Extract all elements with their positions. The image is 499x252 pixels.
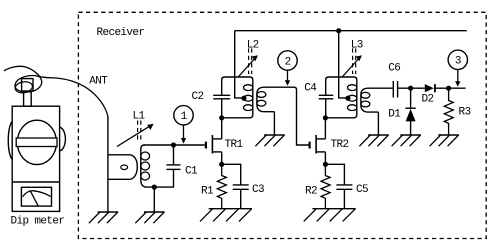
inductor L2 (primary loops) [244,85,253,111]
svg-text:C5: C5 [356,184,368,196]
svg-text:TR2: TR2 [331,139,349,151]
svg-text:R2: R2 [305,186,317,198]
wire: rail to L3 tap [339,31,348,98]
capacitor C3 [222,164,249,208]
svg-text:ANT: ANT [89,75,108,87]
svg-text:TR1: TR1 [225,139,244,151]
svg-text:C4: C4 [304,83,317,95]
tank circuit L3/C4 outline [326,77,357,118]
ground (R3) [430,135,459,146]
svg-text:C2: C2 [192,91,204,103]
junction: ground tap [152,185,157,190]
inductor L3 (primary loops) [348,85,357,111]
wire: C6 to D2 [398,87,425,89]
resistor R3 [444,88,453,135]
svg-text:D2: D2 [422,93,434,105]
tank circuit L2/C2 outline [222,77,253,118]
junction: D2 / R3 node [446,86,451,91]
node 1 [174,106,193,144]
receiver enclosure (dashed box) [78,12,486,238]
variable-core arrow L3 [343,48,362,76]
wire: L3 secondary top to C6 [368,87,393,89]
resistor R1 [217,164,226,208]
wire: L2 secondary top to TR2 gate [264,87,309,145]
wire to ground [153,187,155,212]
node 3 [448,50,467,87]
svg-text:Dip meter: Dip meter [11,215,65,227]
wire: L2 secondary bottom to ground [273,112,275,135]
wire: L3 secondary bottom to ground [377,112,379,135]
junction: TR1 drain / tank bottom [219,115,224,120]
node 2 [278,51,297,86]
wire: L1 secondary bottom / C1 bottom [146,186,174,188]
junction: L3 tap [345,96,350,101]
svg-text:C6: C6 [388,63,400,75]
svg-text:C3: C3 [252,184,264,196]
wire: L1 secondary to TR1 gate [144,144,205,146]
supply rail [235,30,467,32]
svg-text:R1: R1 [201,186,214,198]
svg-text:Receiver: Receiver [97,27,145,39]
junction: C6 / D1 / D2 node [408,86,413,91]
svg-text:L1: L1 [133,110,146,122]
junction: C1 tap [171,142,176,147]
svg-text:2: 2 [285,56,291,68]
wire: dip-meter probe loop to antenna input [4,66,108,117]
resistor R2 [321,164,330,208]
capacitor C4 [319,95,334,99]
transformer L1 primary [108,155,137,180]
diode D1 [405,88,415,135]
junction: L2 tap [241,96,246,101]
svg-text:1: 1 [181,111,188,123]
ground (L1 secondary) [135,212,164,223]
ground (R2/C5, wide) [304,209,356,222]
diode D2 [425,84,435,92]
ground (D1) [392,135,421,146]
wire: antenna lead down to ground [107,117,109,212]
variable-core arrow L1 [117,121,154,147]
svg-text:3: 3 [455,56,461,68]
ground (antenna coil) [89,212,118,223]
svg-text:D1: D1 [388,108,401,120]
capacitor C1 [167,145,181,187]
wire: D2 to output [435,87,466,89]
capacitor C5 [325,164,352,208]
junction: TR1 source / R1 / C3 [219,162,224,167]
ground (R1/C3, wide) [200,209,252,222]
ground (L3 secondary) [359,135,388,146]
transistor TR2 (FET) [309,118,326,165]
transistor TR1 (FET) [205,118,222,165]
capacitor C2 [213,95,230,99]
svg-text:C1: C1 [185,166,198,178]
junction: TR2 source / R2 / C5 [323,162,328,167]
junction: rail to L3 drop [336,28,341,33]
dip meter [8,79,65,212]
variable-core arrow L2 [239,48,258,76]
transformer L1 secondary [141,145,150,187]
ground (L2 secondary) [255,135,284,146]
junction: TR2 drain / tank bottom [323,115,328,120]
transformer L3 secondary [361,88,379,112]
svg-text:R3: R3 [459,106,471,118]
transformer L2 secondary [257,87,275,112]
wire: rail to L2 tap [235,31,244,98]
capacitor C6 [393,81,397,98]
